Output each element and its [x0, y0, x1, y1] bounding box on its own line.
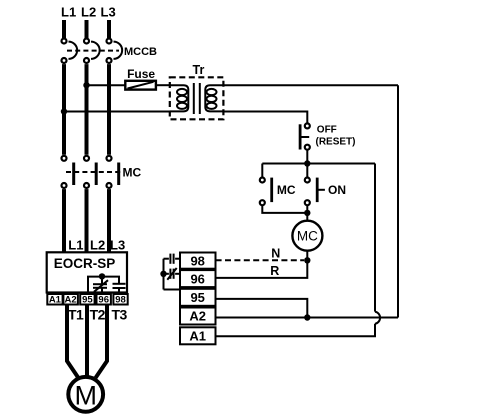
terminal 96 pad [97, 294, 111, 305]
svg-text:T1: T1 [68, 307, 84, 323]
wire T2 to motor [85, 305, 89, 378]
terminal A1 box [180, 327, 216, 344]
transformer Tr dashed box [170, 77, 224, 119]
wire MC-aux branch down [261, 164, 263, 177]
terminal A2 pad [63, 294, 78, 305]
wire coil to node C [306, 251, 308, 261]
contactor MC dashed linkage [66, 171, 121, 173]
svg-text:MC: MC [123, 166, 142, 180]
contact MC auxiliary [260, 178, 273, 206]
breaker MCCB pole 1 [62, 39, 78, 64]
svg-text:L3: L3 [110, 238, 125, 253]
wire fuse right [156, 84, 170, 86]
contact EOCR output NC to 96 [164, 268, 181, 280]
svg-text:95: 95 [82, 294, 93, 305]
wire ON bottom [306, 206, 308, 213]
svg-text:MC: MC [277, 183, 296, 197]
terminal 98 box [180, 253, 216, 269]
pushbutton OFF(RESET) [299, 123, 310, 149]
wire node B to coil [306, 213, 308, 221]
contact EOCR internal NO capacitor [113, 284, 126, 294]
transformer Tr secondary winding [205, 85, 223, 111]
wire L2 lower vertical [85, 189, 89, 252]
svg-text:MCCB: MCCB [124, 46, 157, 58]
transformer Tr primary winding [170, 85, 189, 111]
pushbutton ON [305, 178, 325, 206]
motor M [68, 377, 103, 412]
breaker MCCB pole 3 [107, 39, 123, 64]
wire parallel branch top [262, 163, 375, 165]
contact EOCR internal NC with trip slash [93, 280, 108, 294]
breaker MCCB pole 2 [84, 39, 100, 64]
node A junction dot [304, 160, 310, 166]
wire secondary bottom to OFF [223, 112, 307, 123]
node D junction dot [304, 314, 310, 320]
wire hop over A2 [375, 312, 380, 324]
node B junction dot [304, 210, 310, 216]
wire A2 horizontal [216, 317, 398, 319]
svg-text:98: 98 [115, 294, 126, 305]
wire L1 top stub [62, 20, 66, 38]
wire T1 to motor [67, 305, 78, 378]
wire secondary top to right rail [223, 84, 398, 86]
svg-text:T3: T3 [112, 307, 128, 323]
wire right rail vertical [397, 85, 399, 317]
svg-text:96: 96 [190, 271, 204, 286]
svg-text:L2: L2 [81, 4, 96, 19]
svg-text:A1: A1 [49, 294, 62, 305]
terminal A2 box [180, 308, 216, 325]
wire MC-aux branch bottom [262, 206, 307, 213]
wire L2 upper vertical [85, 64, 89, 155]
wire T3 to motor [96, 305, 107, 378]
svg-text:EOCR-SP: EOCR-SP [54, 256, 116, 271]
contactor MC pole 3 [107, 156, 121, 188]
svg-text:A2: A2 [65, 294, 77, 305]
svg-text:N: N [271, 246, 280, 260]
svg-text:L3: L3 [101, 4, 116, 19]
wire 95 jumper to A2 rail [216, 299, 308, 318]
wire L1 to transformer [64, 111, 170, 113]
wire fuse left [87, 84, 126, 86]
svg-text:96: 96 [98, 294, 109, 305]
wire L1 lower vertical [62, 189, 66, 252]
contactor MC pole 1 [62, 156, 76, 188]
node EOCR internal junction dot [99, 273, 105, 279]
terminal 98 pad [113, 294, 127, 305]
node C junction dot [304, 257, 310, 263]
terminal 95 pad [80, 294, 94, 305]
breaker MCCB dashed linkage [67, 50, 119, 52]
terminal A1 pad [47, 294, 62, 305]
wire L3 lower vertical [107, 189, 111, 252]
wire EOCR common to 95 [164, 289, 181, 291]
wire L3 upper vertical [107, 64, 111, 155]
terminal 95 box [180, 289, 216, 306]
svg-text:OFF: OFF [317, 125, 337, 136]
svg-text:(RESET): (RESET) [316, 137, 356, 148]
svg-text:M: M [74, 380, 97, 410]
svg-text:A2: A2 [189, 309, 206, 324]
wire A1 branch vertical [374, 164, 376, 312]
wire A1 branch lower [216, 324, 375, 337]
wire L2 top stub [85, 20, 89, 38]
svg-text:Tr: Tr [193, 63, 205, 77]
svg-text:R: R [270, 264, 279, 278]
wire EOCR internal middle drop [101, 277, 103, 284]
svg-text:L1: L1 [61, 4, 76, 19]
contact EOCR output NO to 98 [164, 254, 181, 264]
svg-text:T2: T2 [90, 307, 106, 323]
wire N dashed (98 to node C) [216, 259, 304, 261]
svg-text:ON: ON [328, 183, 346, 197]
contactor MC pole 2 [84, 156, 98, 188]
wire EOCR output common vertical [163, 259, 165, 290]
coil MC [292, 221, 322, 251]
terminal 96 box [180, 270, 216, 287]
relay EOCR-SP box [47, 252, 127, 292]
node common junction dot [160, 271, 166, 277]
junction dot L2-fuse [83, 82, 89, 88]
svg-text:95: 95 [190, 290, 204, 305]
svg-text:MC: MC [297, 228, 318, 243]
wire R (node C to 96) [216, 260, 308, 278]
wire ON top [306, 164, 308, 177]
svg-text:98: 98 [190, 253, 204, 268]
fuse F1 [125, 81, 156, 90]
svg-text:L2: L2 [90, 238, 105, 253]
svg-text:Fuse: Fuse [127, 67, 155, 81]
wire EOCR internal bracket [88, 277, 119, 294]
svg-text:L1: L1 [68, 238, 83, 253]
svg-text:A1: A1 [189, 329, 206, 344]
wire L3 top stub [107, 20, 111, 38]
junction dot L1-transformer [61, 108, 67, 114]
transformer Tr core [194, 83, 200, 114]
wire OFF to node A [306, 151, 308, 164]
wire L1 upper vertical [62, 64, 66, 155]
